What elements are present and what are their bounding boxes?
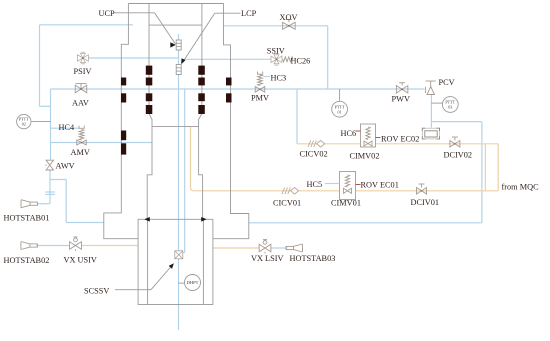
svg-text:02: 02: [22, 122, 26, 127]
svg-text:HC4: HC4: [59, 123, 76, 132]
svg-text:PWV: PWV: [392, 95, 410, 104]
svg-text:SCSSV: SCSSV: [84, 287, 109, 296]
svg-text:VX USIV: VX USIV: [64, 256, 97, 265]
svg-text:DCIV02: DCIV02: [444, 151, 473, 160]
svg-text:HC6: HC6: [341, 129, 357, 138]
svg-text:PCV: PCV: [439, 78, 455, 87]
svg-text:HOTSTAB02: HOTSTAB02: [4, 256, 50, 265]
svg-text:PMV: PMV: [251, 94, 269, 103]
svg-text:XOV: XOV: [280, 13, 298, 22]
svg-text:03: 03: [448, 105, 452, 110]
svg-text:ROV EC01: ROV EC01: [361, 181, 399, 190]
svg-text:VX LSIV: VX LSIV: [251, 254, 284, 263]
svg-text:AAV: AAV: [72, 99, 89, 108]
svg-text:DCIV01: DCIV01: [411, 198, 440, 207]
svg-text:ROV EC02: ROV EC02: [381, 135, 419, 144]
svg-text:CIMV01: CIMV01: [331, 199, 361, 208]
svg-text:AWV: AWV: [56, 161, 75, 170]
svg-text:UCP: UCP: [99, 9, 116, 18]
svg-text:CIMV02: CIMV02: [350, 152, 380, 161]
svg-text:PSIV: PSIV: [74, 67, 92, 76]
svg-text:DHPT: DHPT: [187, 280, 199, 285]
svg-text:HC5: HC5: [307, 180, 323, 189]
svg-text:HC3: HC3: [271, 74, 287, 83]
svg-text:HOTSTAB03: HOTSTAB03: [290, 254, 336, 263]
svg-text:CICV02: CICV02: [300, 150, 328, 159]
svg-text:SSIV: SSIV: [267, 47, 285, 56]
svg-text:CICV01: CICV01: [273, 199, 301, 208]
svg-text:01: 01: [338, 109, 342, 114]
svg-text:from MQC: from MQC: [502, 183, 540, 192]
svg-text:AMV: AMV: [71, 148, 90, 157]
svg-text:LCP: LCP: [241, 9, 257, 18]
svg-text:HOTSTAB01: HOTSTAB01: [4, 214, 50, 223]
svg-text:HC26: HC26: [291, 57, 311, 66]
